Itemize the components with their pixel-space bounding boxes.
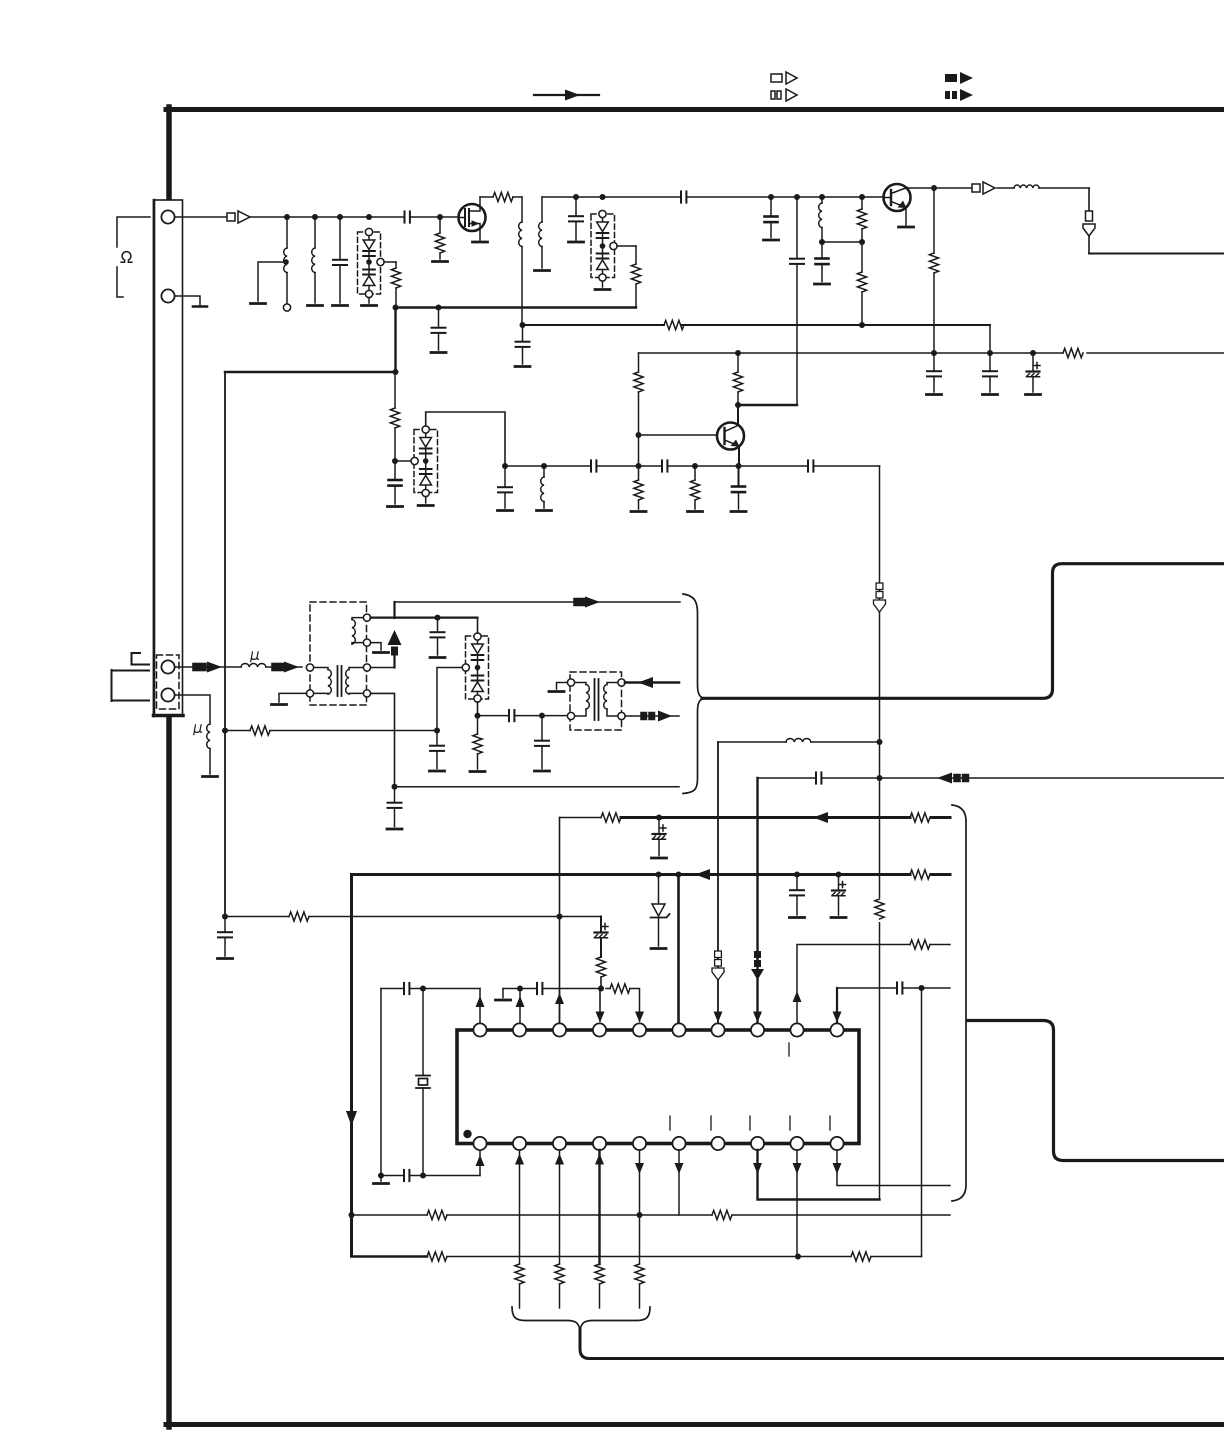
thick bus from brace staircase to right edge — [702, 564, 1224, 699]
signal up marker arrow — [388, 630, 402, 668]
wire collector node thick — [738, 404, 797, 406]
legend open squares arrow row 2 — [771, 89, 797, 101]
wire y=466 — [502, 463, 880, 469]
wire to transformer T1 — [266, 662, 302, 673]
T1 secondary bottom out wire — [371, 693, 395, 786]
capacitor series crystal bottom — [404, 1170, 409, 1181]
electrolytic C10 — [1026, 353, 1041, 395]
resistor R7 collector bias — [929, 188, 938, 353]
wire y=412 varactor top link — [426, 412, 505, 466]
capacitor C4 tank line — [515, 322, 530, 367]
wire pins top y=988.5 — [496, 986, 605, 1001]
balanced input symbol lower — [112, 670, 150, 701]
wire stage2 top y=197 — [542, 194, 884, 200]
varactor diode pair D2 dashed box — [591, 210, 617, 281]
pin6b wire corner — [675, 1150, 684, 1215]
inductor L9 micro to ground — [175, 695, 218, 777]
node dot 395,372 — [393, 369, 399, 375]
electrolytic C17 — [652, 818, 667, 859]
pin10 wire corner cap — [833, 985, 951, 1024]
thick vertical x=351.5 — [346, 875, 357, 1257]
pin7 vertical with open marker — [712, 742, 724, 1024]
varactor diode pair D4 dashed box — [462, 633, 488, 702]
wire y=1215 — [352, 1210, 951, 1219]
pin9b wire down — [793, 1150, 802, 1257]
pin3 wire arrow up — [555, 989, 564, 1024]
connector J1 body — [154, 200, 184, 716]
resistor R2 gate to ground — [433, 217, 448, 262]
pin5b wire down — [635, 1150, 644, 1308]
wire y=778 with cap and arrow — [758, 773, 1224, 784]
IC U1 body — [457, 1030, 859, 1144]
inductor L7 — [537, 466, 552, 511]
pin8b thick L wire — [753, 1150, 880, 1200]
pin2 wire arrow up — [516, 989, 525, 1024]
capacitor C18 — [790, 875, 805, 918]
capacitor C15 — [430, 731, 445, 772]
resistor R10 — [631, 466, 646, 512]
inductor L8 micro — [241, 652, 266, 667]
wire y=786.7 to brace — [395, 786, 680, 788]
wire crystal top y=988.5 — [381, 986, 480, 992]
AF out wire with squares arrow — [625, 711, 679, 722]
T1 primary ground — [272, 693, 307, 704]
varactor D3 ground — [418, 497, 433, 506]
node dot 395,307 — [393, 305, 399, 311]
transistor Q1 FET — [459, 197, 488, 242]
T1 primary winding — [306, 664, 331, 697]
riser x=394.5 upper — [393, 602, 395, 618]
capacitor series input — [405, 211, 410, 222]
capacitor series y=466 right — [808, 460, 813, 471]
wire AGC thick y=307.5 — [396, 306, 637, 308]
connector pin circle 2 — [161, 289, 174, 302]
wire antenna input y=217 — [176, 216, 228, 218]
capacitor C8 — [927, 353, 942, 395]
wire crystal bottom y=1175.5 — [381, 1175, 480, 1177]
open square arrow marker input — [227, 211, 250, 223]
IC pin number ticks bottom — [670, 1116, 830, 1130]
capacitor C6 series on x=797 — [790, 197, 804, 405]
capacitor C14 — [387, 787, 402, 829]
wire y=254 to right edge — [1089, 253, 1224, 255]
pin10b wire corner — [833, 1150, 951, 1186]
bus B+ thick y=817.5 — [560, 812, 951, 823]
resistor R8 base bias upper — [634, 353, 643, 469]
pin4 wire arrow down — [596, 989, 605, 1023]
node dots y=217 — [284, 214, 372, 220]
capacitor C11 — [388, 461, 403, 507]
capacitor series y=778 — [816, 772, 821, 783]
wire cap to Q1 gate — [410, 216, 459, 218]
resistor R3 drain load — [480, 192, 522, 201]
capacitor C1 to ground — [333, 217, 348, 306]
balanced input symbol upper — [132, 653, 150, 665]
Q3 collector wire y=188 — [907, 185, 972, 191]
inductor L1 tapped — [284, 217, 287, 303]
capacitor C5 thick plates — [764, 197, 779, 240]
IC pin number ticks top — [788, 1043, 790, 1056]
wire mixer link y=742 with coil — [718, 738, 880, 742]
capacitor C2 — [569, 197, 584, 242]
capacitor series y=466 second — [662, 460, 667, 471]
capacitor series stage2 — [681, 191, 686, 202]
capacitor C16 — [535, 716, 550, 771]
inductor L4 — [535, 197, 550, 271]
transformer T1 dashed box — [310, 602, 367, 705]
transformer T2 dashed box — [570, 672, 622, 730]
resistor R4 varactor feed — [617, 246, 641, 308]
inductor L5 — [819, 197, 825, 245]
T1 secondary top out wire — [371, 667, 395, 669]
capacitor C7 thick — [815, 242, 830, 284]
inductor L6 — [997, 185, 1089, 188]
T1 top link coil — [352, 614, 371, 646]
Q2 base wire — [639, 434, 718, 436]
connector dashed box lower pins — [157, 655, 180, 709]
T2 primary winding — [567, 679, 589, 720]
capacitor series y=466 first — [591, 460, 596, 471]
node dot 225,916 — [222, 914, 228, 920]
riser x=990 — [989, 325, 991, 353]
transistor Q2 — [717, 405, 744, 469]
wire x=225 vertical — [224, 372, 226, 917]
T2 core — [595, 679, 599, 720]
resistor R14 to pin5 — [606, 984, 644, 1023]
pin8 vertical with solid marker — [751, 778, 764, 1024]
wire pin3 to mixer with arrows — [175, 662, 241, 673]
capacitor C20 — [218, 917, 233, 959]
connector pin circle 1 — [161, 210, 174, 223]
pin3b wire down to resistor — [555, 1150, 564, 1308]
capacitor C9 — [983, 353, 998, 395]
Q2 emitter bypass capacitor — [731, 466, 746, 512]
capacitor series crystal top — [404, 983, 409, 994]
wire AGC y=916.5 — [225, 912, 560, 921]
T1 link ground stub — [371, 643, 389, 653]
D4 left wire down to AFC — [434, 668, 462, 734]
vertical x=879.5 with open marker — [874, 466, 886, 1200]
resistor R5 — [822, 197, 867, 245]
wire y=715.6 detector — [478, 713, 568, 719]
T2 primary top ground stub — [549, 683, 568, 692]
border frame left edge lower — [166, 716, 172, 1427]
inductor L2 — [308, 217, 323, 306]
pin2b wire down to resistor — [515, 1150, 524, 1308]
wire y=217 to gate — [250, 216, 404, 218]
legend solid signal arrow — [534, 90, 599, 101]
crystal X1 — [416, 989, 430, 1179]
connector pin circle 4 — [161, 688, 174, 701]
varactor D3 feed wire — [392, 458, 411, 464]
jog wire to electro column — [560, 916, 602, 918]
crystal oscillator loop left vertical — [374, 989, 389, 1184]
resistor R13 — [470, 716, 485, 772]
varactor diode pair D3 dashed box — [411, 426, 438, 497]
varactor diode pair D1 dashed box — [358, 228, 385, 297]
75 ohm impedance bracket — [117, 217, 150, 297]
wire osc out y=602 — [395, 597, 681, 608]
capacitor C12 — [498, 466, 513, 511]
capacitor series pin10 — [897, 982, 902, 993]
thick corner bus bottom y=1256 — [352, 1252, 922, 1261]
connector pin2 ground stub — [176, 296, 208, 307]
node dot gate — [437, 214, 443, 220]
resistor R11 — [688, 466, 703, 512]
T2 secondary winding — [604, 679, 625, 720]
varactor D1 ground — [362, 298, 377, 306]
resistor R15 on x=879 — [873, 898, 886, 922]
node dot 438,307 — [436, 305, 442, 311]
node dot 559,916 — [557, 914, 563, 920]
capacitor series pin2 — [537, 983, 542, 994]
brace resistor bundle — [512, 1307, 650, 1331]
node dot 394,786 — [392, 784, 398, 790]
wire AFC y=730.5 with resistor — [222, 726, 437, 735]
resistor R6 — [857, 242, 866, 325]
pin1 riser arrow up — [476, 989, 485, 1024]
legend solid square arrow row 1 — [945, 72, 973, 84]
bundling bracket right side — [952, 805, 966, 1201]
tank inductor L3 — [519, 197, 522, 325]
pin9 wire up corner — [793, 940, 951, 1024]
capacitor series det — [509, 710, 514, 721]
capacitor C3 to ground — [431, 308, 446, 353]
electrolytic C21 with resistor — [595, 917, 609, 989]
thick line from brace to right edge — [580, 1329, 1224, 1359]
transistor Q3 — [884, 184, 914, 227]
wire y=325 thick — [523, 320, 991, 329]
audio out wire with left arrow — [625, 677, 679, 688]
pin6 thick vertical — [677, 875, 680, 1024]
resistor R9 collector load — [733, 353, 742, 408]
riser x=921.5 — [921, 988, 923, 1257]
L1 bottom open terminal — [283, 304, 290, 311]
thick staircase to right edge lower — [968, 1021, 1224, 1161]
electrolytic C19 — [831, 875, 846, 918]
zener diode D5 — [651, 875, 670, 949]
D4 top riser — [477, 618, 479, 633]
bus B+ thick y=874.5 — [352, 869, 951, 880]
resistor R12 on x=395 — [390, 372, 399, 461]
D4 bottom node — [475, 702, 481, 719]
T1 core — [338, 666, 342, 696]
wire thick y=617.6 — [371, 615, 478, 621]
link marker with open arrow down — [1083, 188, 1095, 253]
pin4b thick wire down to resistor — [595, 1150, 604, 1308]
legend solid squares arrow row 2 — [945, 89, 973, 101]
legend open square arrow row 1 — [771, 72, 797, 84]
pin1 bottom riser arrow up — [476, 1151, 485, 1176]
IC top pin circles — [473, 1023, 843, 1036]
bus1 left riser x=559.5 — [559, 818, 561, 1024]
open square arrow marker IF out — [972, 182, 995, 194]
wire y=353 — [639, 348, 1224, 357]
IC pin1 index dot — [463, 1130, 471, 1138]
connector pin circle 3 — [161, 660, 174, 673]
IC bottom pin circles — [473, 1137, 843, 1150]
border frame bottom edge — [166, 1422, 1224, 1427]
varactor D2 ground — [595, 281, 610, 290]
resistor R1 varactor feed — [384, 262, 401, 308]
T1 secondary winding — [346, 664, 371, 697]
capacitor C13 — [430, 618, 445, 658]
border frame top edge — [166, 107, 1224, 112]
border frame left edge upper — [166, 107, 172, 201]
wire thick x=395 segment — [394, 308, 396, 373]
L1 tap wire and ground — [251, 259, 289, 303]
wire thick y=372 — [225, 371, 396, 373]
brace bundle right — [683, 594, 704, 794]
